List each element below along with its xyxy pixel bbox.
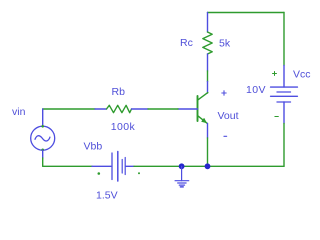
wire vin bottom — [42, 158, 44, 166]
wire Rc to collector — [207, 71, 209, 82]
pin Vcc top — [283, 66, 285, 88]
wire top rail — [208, 12, 285, 14]
polarity - Vcc — [275, 116, 278, 118]
junction dot ground — [179, 163, 185, 169]
svg-text:Vcc: Vcc — [293, 69, 311, 81]
resistor Rc — [203, 32, 212, 54]
svg-text:100k: 100k — [111, 121, 136, 133]
svg-text:1.5V: 1.5V — [96, 190, 118, 202]
pin Q1 emitter — [207, 123, 209, 138]
svg-text:5k: 5k — [219, 38, 231, 50]
polarity mark vin top — [41, 125, 44, 128]
battery Vcc — [271, 87, 298, 102]
svg-text:10V: 10V — [246, 84, 266, 96]
transistor Q1 — [198, 93, 208, 124]
wire bottom rail right — [134, 165, 284, 167]
wire emitter to rail — [207, 138, 209, 166]
polarity mark vin bottom — [41, 149, 44, 152]
pin Rb left — [95, 108, 107, 110]
pin Q1 base — [178, 108, 198, 110]
wire Vcc top vertical — [283, 13, 285, 66]
pin vin plus lead — [42, 109, 44, 126]
svg-text:Rb: Rb — [112, 86, 126, 98]
pin Vbb right — [126, 165, 134, 167]
pin Rc top — [207, 13, 209, 33]
svg-text:Rc: Rc — [180, 37, 193, 49]
pin Vcc bottom — [283, 102, 285, 124]
polarity mark Vbb right — [138, 172, 140, 174]
wire Vcc to rail — [283, 124, 285, 167]
resistor Rb — [107, 105, 132, 112]
pin Vbb left — [92, 165, 111, 167]
polarity mark Vbb left — [98, 172, 101, 175]
ground — [175, 166, 189, 187]
pin Rc bottom — [207, 54, 209, 71]
battery Vbb — [112, 152, 125, 182]
polarity + Vcc — [273, 72, 277, 76]
pin Rb right — [132, 108, 149, 110]
svg-text:vin: vin — [12, 106, 26, 118]
svg-text:Vout: Vout — [218, 110, 239, 122]
pin Q1 collector — [207, 82, 209, 94]
wire bottom rail left — [43, 165, 92, 167]
pin vin minus lead — [42, 150, 44, 158]
ac source vin — [31, 126, 55, 150]
wire vin top corner — [43, 108, 95, 110]
svg-text:Vbb: Vbb — [84, 141, 103, 153]
polarity - Vout — [224, 135, 227, 137]
polarity + Vout — [222, 91, 226, 95]
wire Rb to base — [148, 108, 178, 110]
junction dot emitter — [205, 163, 211, 169]
